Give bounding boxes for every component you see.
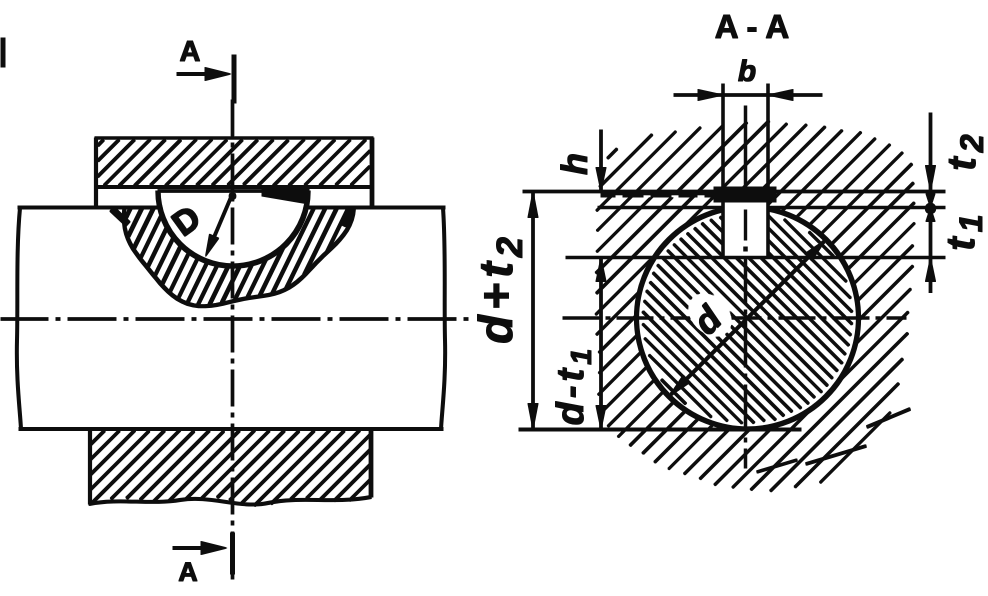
svg-text:h: h: [554, 153, 595, 175]
svg-text:A: A: [178, 557, 198, 587]
svg-text:b: b: [738, 55, 756, 88]
svg-text:A: A: [180, 36, 201, 68]
svg-text:A - A: A - A: [715, 8, 790, 45]
